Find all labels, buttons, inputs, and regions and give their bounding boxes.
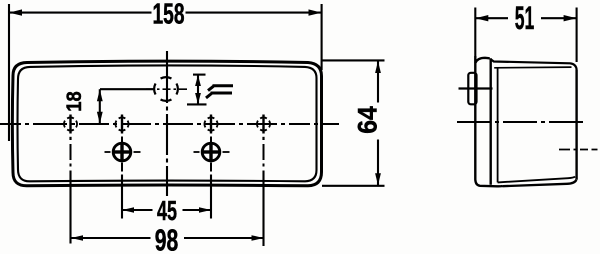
svg-text:51: 51 (515, 0, 535, 36)
svg-text:45: 45 (157, 195, 177, 226)
svg-text:158: 158 (153, 0, 185, 30)
svg-text:18: 18 (63, 91, 86, 112)
svg-text:64: 64 (353, 106, 383, 134)
svg-text:98: 98 (155, 222, 179, 254)
